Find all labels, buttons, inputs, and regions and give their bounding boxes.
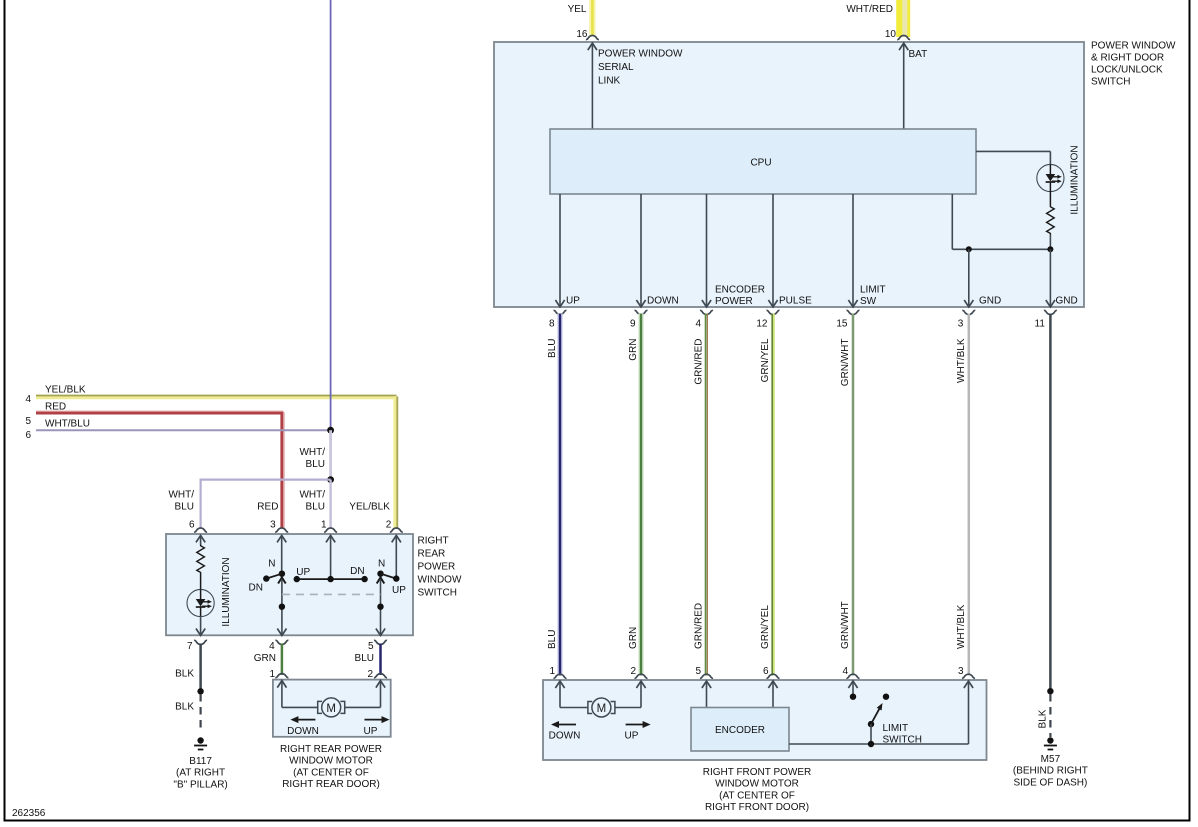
wire pin 16 to CPU: [588, 43, 597, 50]
svg-text:ILLUMINATION: ILLUMINATION: [1070, 145, 1081, 214]
svg-text:1: 1: [321, 520, 327, 531]
svg-text:4: 4: [25, 394, 31, 405]
svg-text:DOWN: DOWN: [287, 726, 319, 737]
svg-text:ENCODER: ENCODER: [715, 725, 765, 736]
wire pin 10 to CPU: [899, 43, 908, 50]
wire WHT/RED highlighted to pin 10: [896, 0, 910, 37]
LED illumination (in switch unit): [1037, 164, 1064, 191]
svg-text:WHT/BLK: WHT/BLK: [956, 604, 967, 649]
svg-text:ILLUMINATION: ILLUMINATION: [221, 557, 232, 626]
resistor illumination: [197, 545, 205, 574]
svg-text:6: 6: [189, 520, 195, 531]
svg-text:16: 16: [576, 29, 588, 40]
junction BLK splice: [197, 688, 203, 694]
svg-text:WHT/: WHT/: [299, 490, 325, 501]
resistor (illumination dropping): [1049, 191, 1051, 206]
arrow DOWN direction rear: [297, 719, 315, 721]
svg-text:POWER: POWER: [715, 296, 753, 307]
svg-text:UP: UP: [364, 726, 378, 737]
svg-text:POWER WINDOW: POWER WINDOW: [598, 49, 683, 60]
wire WHT/BLU from top: [330, 0, 332, 430]
svg-text:5: 5: [695, 666, 701, 677]
wire BLK dashed to B117: [200, 694, 202, 733]
svg-text:RIGHT REAR POWER: RIGHT REAR POWER: [280, 744, 382, 755]
svg-text:LOCK/UNLOCK: LOCK/UNLOCK: [1091, 65, 1163, 76]
svg-text:POWER WINDOW: POWER WINDOW: [1091, 41, 1176, 52]
wire CPU pin DOWN: [640, 194, 642, 306]
svg-text:6: 6: [763, 666, 769, 677]
svg-text:BLU: BLU: [306, 459, 325, 470]
svg-text:RED: RED: [257, 502, 278, 513]
svg-text:DOWN: DOWN: [647, 296, 679, 307]
svg-text:9: 9: [630, 319, 636, 330]
svg-text:PULSE: PULSE: [779, 296, 812, 307]
wire left switch to pin 4: [278, 578, 286, 584]
wire BLK pin 7 to splice: [199, 644, 202, 692]
svg-text:GRN: GRN: [254, 653, 276, 664]
svg-text:"B" PILLAR): "B" PILLAR): [173, 779, 227, 790]
wire pin 1 to motor: [277, 681, 286, 688]
svg-text:4: 4: [695, 319, 701, 330]
wire GND pin 3: [968, 249, 970, 306]
svg-text:7: 7: [187, 641, 193, 652]
svg-text:WHT/BLU: WHT/BLU: [45, 419, 90, 430]
junction WHT/BLU upper splice: [327, 427, 334, 434]
svg-text:4: 4: [842, 666, 848, 677]
motor M rear: [318, 698, 345, 717]
svg-text:4: 4: [269, 641, 275, 652]
svg-text:ENCODER: ENCODER: [715, 284, 765, 295]
svg-text:WINDOW MOTOR: WINDOW MOTOR: [715, 779, 799, 790]
wire WHT/BLU circuit 6: [36, 429, 331, 431]
svg-text:CPU: CPU: [750, 158, 771, 169]
svg-text:RIGHT FRONT DOOR): RIGHT FRONT DOOR): [705, 802, 809, 813]
svg-text:GND: GND: [1056, 296, 1078, 307]
wire pin 1 to motor: [555, 681, 564, 688]
wire GRN/WHT pin 15 to motor pin 4: [852, 314, 855, 676]
svg-text:GRN/RED: GRN/RED: [694, 603, 705, 649]
wire pin 5 to encoder: [702, 681, 711, 688]
junction gnd bus right: [1047, 246, 1053, 252]
svg-text:BLU: BLU: [306, 502, 325, 513]
svg-text:LINK: LINK: [598, 76, 621, 87]
arrow DOWN direction: [558, 724, 576, 726]
wire pin 2 to motor: [376, 681, 385, 688]
svg-text:GRN: GRN: [628, 627, 639, 649]
svg-text:2: 2: [630, 666, 636, 677]
wire LED to pin 7: [200, 616, 202, 634]
svg-text:(AT CENTER OF: (AT CENTER OF: [293, 767, 369, 778]
svg-text:RIGHT FRONT POWER: RIGHT FRONT POWER: [703, 767, 812, 778]
svg-text:UP: UP: [392, 585, 406, 596]
svg-text:SIDE OF DASH): SIDE OF DASH): [1013, 777, 1087, 788]
wire GND pin 11: [1049, 249, 1051, 306]
border frame: [4, 0, 6, 822]
ground B117: [194, 737, 207, 749]
wire GRN/RED pin 4 to motor pin 5: [705, 314, 707, 676]
svg-text:N: N: [268, 559, 275, 570]
svg-text:3: 3: [958, 666, 964, 677]
svg-text:2: 2: [367, 669, 373, 680]
svg-text:12: 12: [756, 319, 768, 330]
svg-text:262356: 262356: [12, 808, 46, 819]
wire CPU pin ENCODER POWER: [706, 194, 708, 306]
LED illumination lamp: [187, 589, 214, 616]
svg-text:RIGHT: RIGHT: [418, 536, 449, 547]
junction BLK splice: [1047, 688, 1053, 694]
encoder box: [691, 708, 789, 752]
wire WHT/BLK pin 3 to motor pin 3: [968, 314, 971, 676]
svg-text:M57: M57: [1041, 754, 1061, 765]
right rear power window motor box: [273, 680, 391, 737]
svg-text:GRN/YEL: GRN/YEL: [760, 605, 771, 649]
wire CPU pin LIMIT SW: [852, 194, 854, 306]
svg-text:2: 2: [386, 520, 392, 531]
svg-text:BLK: BLK: [175, 669, 194, 680]
wire pin 1 to rocker common bar: [326, 535, 335, 542]
svg-text:10: 10: [885, 29, 897, 40]
CPU U1: [550, 129, 976, 194]
svg-text:DN: DN: [350, 566, 364, 577]
svg-text:RIGHT REAR DOOR): RIGHT REAR DOOR): [282, 779, 380, 790]
svg-text:GRN/WHT: GRN/WHT: [840, 339, 851, 387]
wire CPU pin UP: [559, 194, 561, 306]
svg-text:SERIAL: SERIAL: [598, 62, 634, 73]
svg-text:RED: RED: [45, 402, 66, 413]
power window & right door lock/unlock switch box: [494, 42, 1084, 307]
wire pin 6 to encoder: [768, 681, 777, 688]
svg-text:REAR: REAR: [418, 549, 446, 560]
motor M front: [588, 698, 615, 717]
svg-text:(AT RIGHT: (AT RIGHT: [176, 768, 225, 779]
svg-text:GRN/RED: GRN/RED: [694, 339, 705, 385]
svg-text:BLU: BLU: [547, 339, 558, 358]
svg-text:SWITCH: SWITCH: [1091, 77, 1130, 88]
svg-text:& RIGHT DOOR: & RIGHT DOOR: [1091, 53, 1164, 64]
wire resistor to gnd bus: [1049, 235, 1051, 250]
wire pin 2 to UP/N switch: [392, 535, 401, 542]
svg-text:(AT CENTER OF: (AT CENTER OF: [719, 790, 795, 801]
svg-text:YEL/BLK: YEL/BLK: [349, 502, 390, 513]
svg-text:WHT/: WHT/: [299, 447, 325, 458]
arrow UP direction rear: [365, 719, 383, 721]
svg-text:GRN/WHT: GRN/WHT: [840, 601, 851, 649]
svg-text:GRN: GRN: [628, 339, 639, 361]
svg-text:B117: B117: [189, 756, 212, 767]
svg-text:8: 8: [549, 319, 555, 330]
ground M57: [1044, 737, 1057, 749]
svg-text:GRN/YEL: GRN/YEL: [760, 338, 771, 382]
svg-text:3: 3: [958, 319, 964, 330]
wire YEL/BLK circuit 4: [36, 396, 394, 399]
right rear power window switch box: [166, 534, 413, 635]
svg-text:YEL/BLK: YEL/BLK: [45, 385, 86, 396]
wire CPU pin PULSE: [772, 194, 774, 306]
wire BLU switch pin 5 to motor pin 2: [379, 644, 382, 675]
svg-text:UP: UP: [625, 731, 639, 742]
svg-text:BLU: BLU: [175, 502, 194, 513]
wire pin 3 to DN/N switch: [277, 535, 286, 542]
wire RED circuit 5: [36, 410, 284, 412]
wire WHT/BLU to pin 1: [329, 480, 331, 529]
wire pin 2 to motor: [636, 681, 645, 688]
svg-text:BLU: BLU: [547, 630, 558, 649]
svg-text:1: 1: [269, 669, 275, 680]
wire GRN pin 9 to motor pin 2: [638, 314, 644, 676]
limit switch: [883, 694, 889, 700]
mechanical link dashed: [282, 593, 381, 595]
svg-text:UP: UP: [566, 296, 580, 307]
svg-text:11: 11: [1035, 319, 1046, 330]
svg-text:1: 1: [549, 666, 555, 677]
wire GRN/YEL pin 12 to motor pin 6: [771, 314, 773, 676]
wire WHT/BLU branch to pin 6: [201, 480, 331, 529]
svg-text:LIMIT: LIMIT: [860, 284, 886, 295]
svg-text:(BEHIND RIGHT: (BEHIND RIGHT: [1013, 766, 1088, 777]
svg-text:WHT/BLK: WHT/BLK: [956, 338, 967, 383]
svg-text:LIMIT: LIMIT: [883, 723, 909, 734]
svg-text:BLU: BLU: [355, 653, 374, 664]
wire BLK pin 11 to M57: [1049, 314, 1052, 692]
wire pin 6 to resistor: [196, 535, 205, 542]
svg-text:WINDOW: WINDOW: [418, 575, 462, 586]
wire GRN switch pin 4 to motor pin 1: [281, 644, 284, 675]
svg-text:UP: UP: [296, 567, 310, 578]
switch UP contact right: [377, 571, 383, 577]
svg-text:DOWN: DOWN: [549, 731, 581, 742]
right front power window motor box: [543, 680, 987, 760]
svg-text:5: 5: [25, 416, 31, 427]
junction WHT/BLU lower splice: [327, 476, 334, 483]
svg-text:BAT: BAT: [909, 49, 928, 60]
svg-text:SW: SW: [860, 296, 877, 307]
svg-text:BLK: BLK: [1037, 709, 1048, 728]
svg-text:5: 5: [368, 641, 374, 652]
svg-text:WHT/: WHT/: [168, 490, 194, 501]
wire CPU to illumination LED: [976, 150, 1050, 152]
svg-text:DN: DN: [249, 583, 263, 594]
arrow UP direction: [626, 724, 644, 726]
wire resistor to LED: [200, 574, 202, 591]
svg-text:POWER: POWER: [418, 562, 456, 573]
svg-text:SWITCH: SWITCH: [418, 588, 457, 599]
wire WHT/BLU splice to splice: [329, 430, 332, 479]
wire right switch to pin 5: [377, 578, 385, 584]
svg-text:WHT/RED: WHT/RED: [846, 4, 893, 15]
svg-text:BLK: BLK: [175, 702, 194, 713]
svg-text:YEL: YEL: [568, 4, 587, 15]
svg-text:SWITCH: SWITCH: [883, 735, 922, 746]
svg-text:6: 6: [25, 430, 31, 441]
wire pin 4 to limit switch contact: [848, 681, 857, 688]
wire CPU to gnd bus: [951, 194, 953, 249]
wire encoder to limit switch and pin 3: [789, 743, 969, 745]
svg-text:WINDOW MOTOR: WINDOW MOTOR: [289, 756, 373, 767]
wire BLK dashed to M57 ground: [1049, 694, 1051, 737]
wire BLU pin 8 to motor pin 1: [557, 314, 563, 676]
svg-text:N: N: [378, 559, 385, 570]
svg-text:15: 15: [836, 319, 848, 330]
rocker common bar UP/DN: [297, 578, 365, 580]
wire YEL to pin 16: [589, 0, 596, 36]
switch DN contact left: [279, 571, 285, 577]
svg-text:GND: GND: [979, 296, 1001, 307]
junction gnd bus left: [966, 246, 972, 252]
svg-text:3: 3: [270, 520, 276, 531]
